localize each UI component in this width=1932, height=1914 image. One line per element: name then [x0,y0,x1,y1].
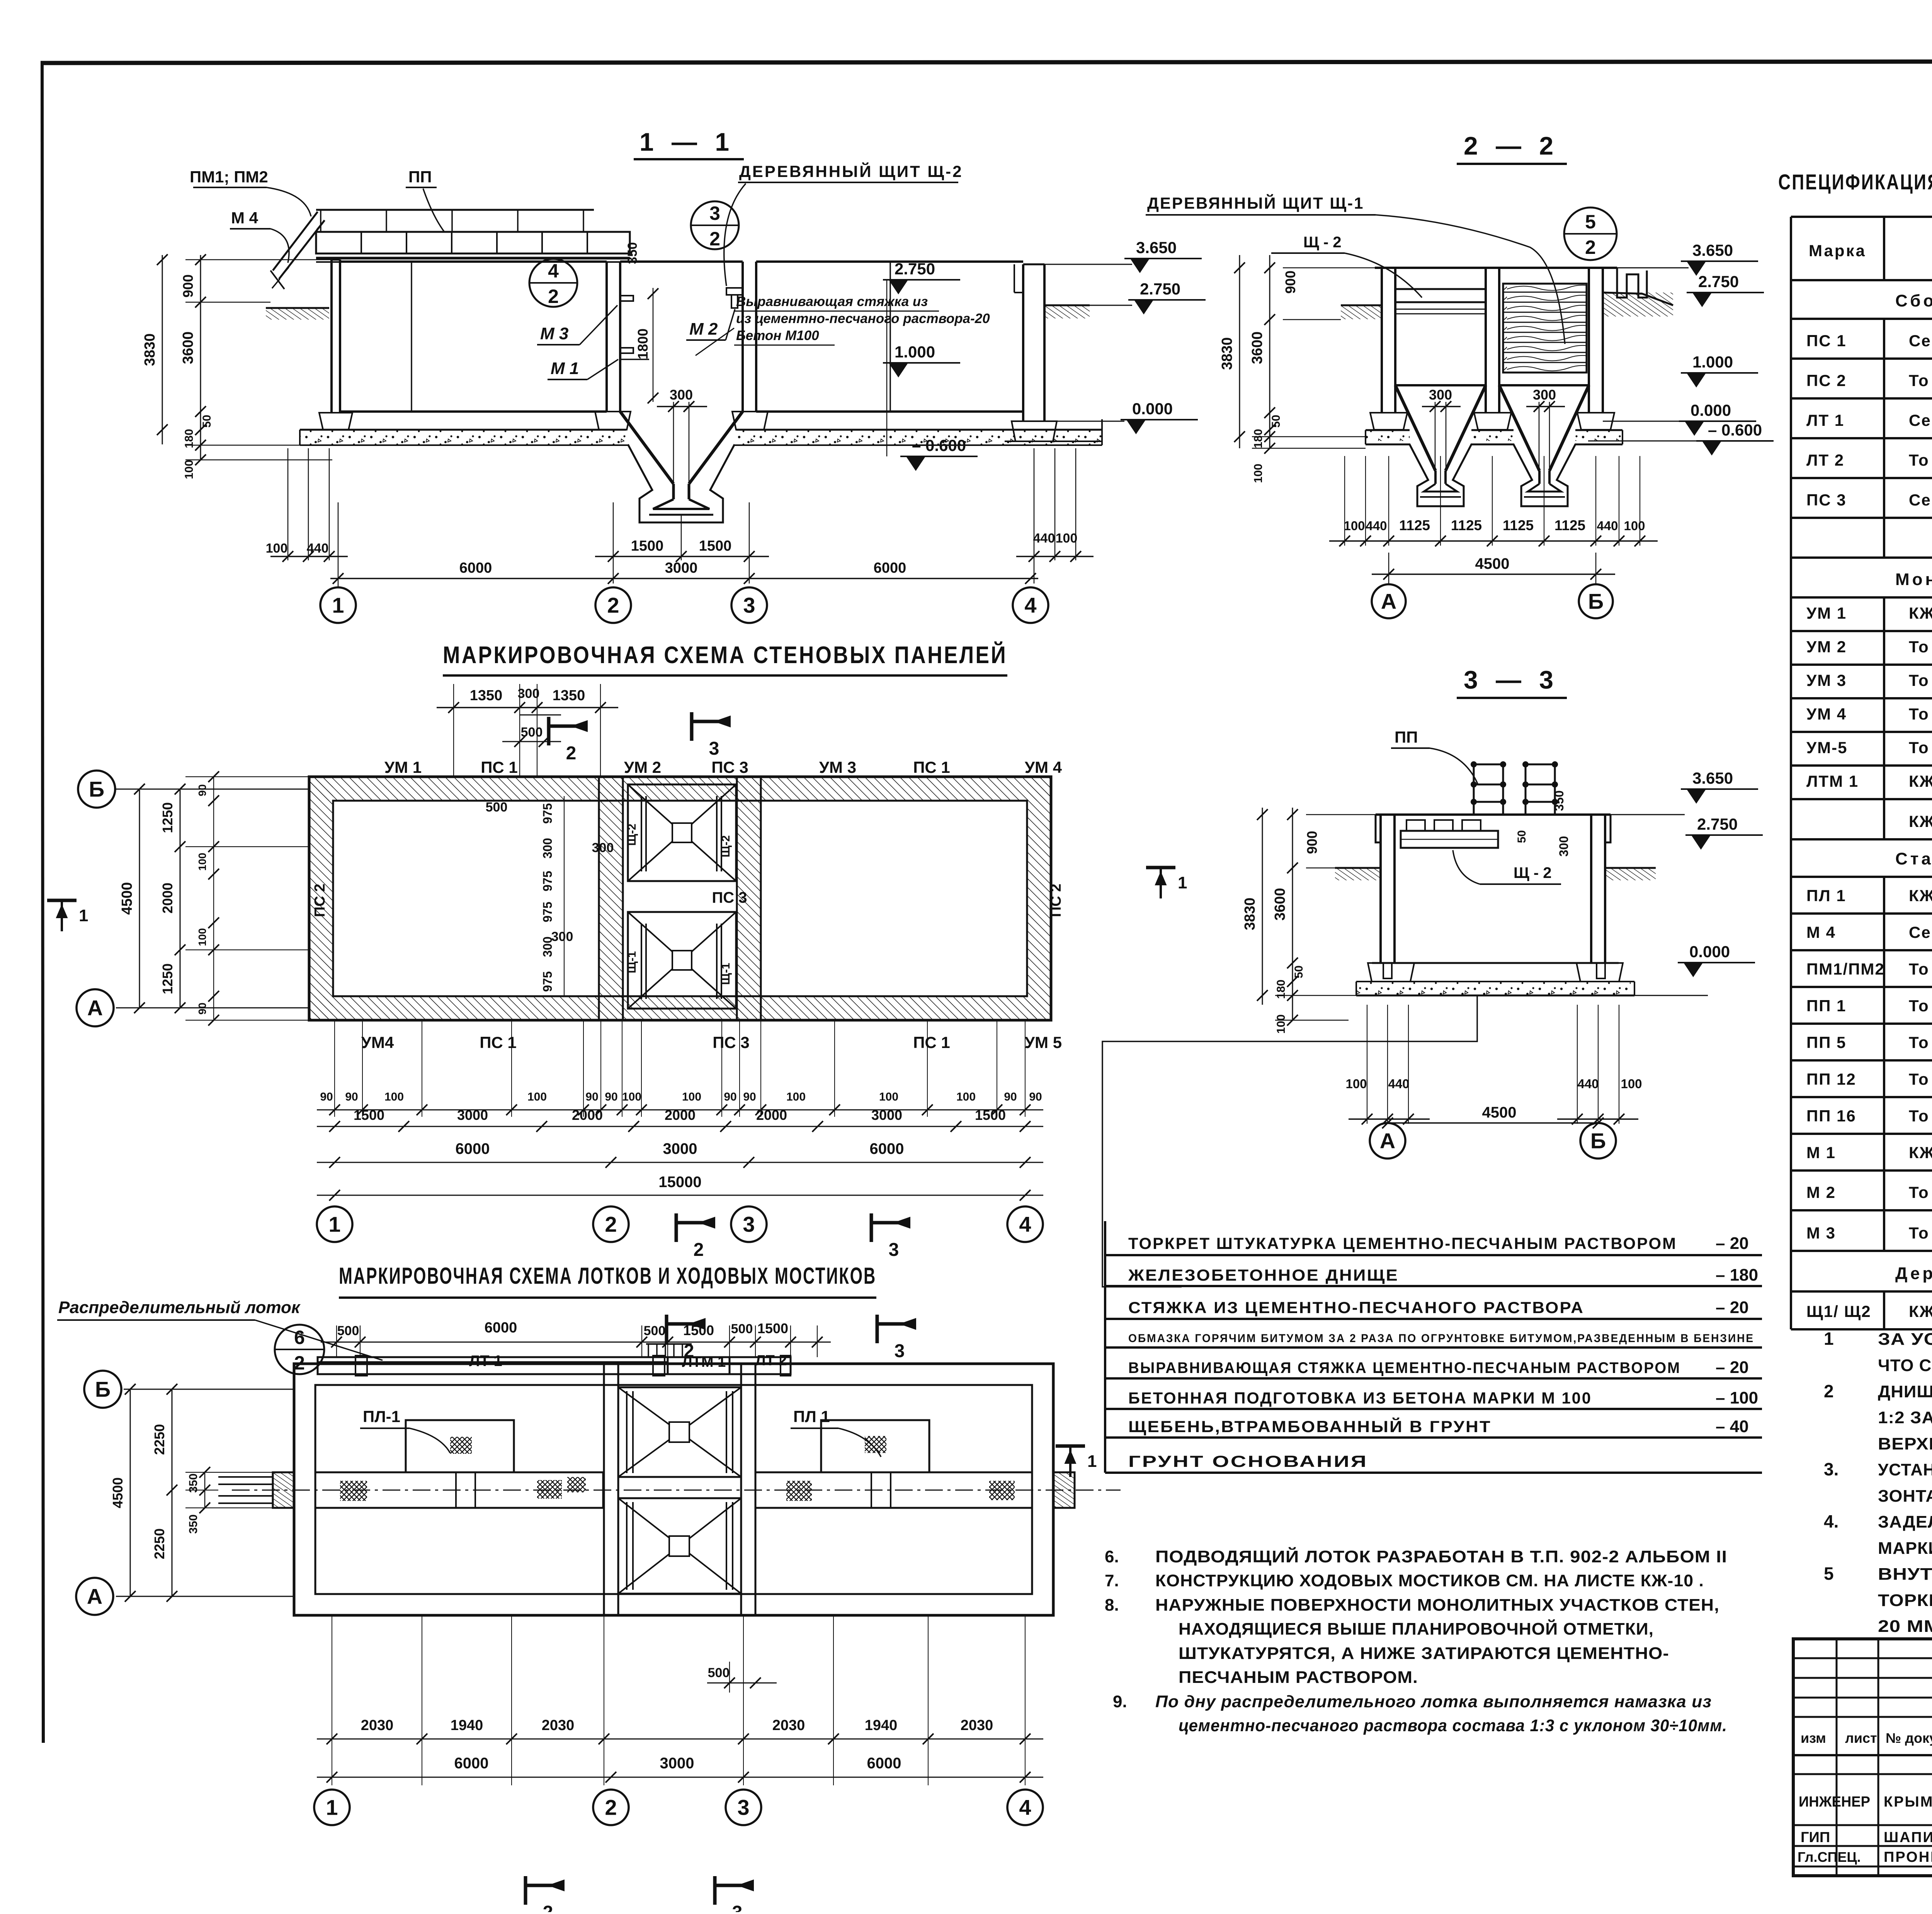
svg-text:5: 5 [1585,211,1596,233]
svg-text:2: 2 [1585,236,1596,258]
walkway hatch patches left [340,1481,367,1501]
svg-text:20 ММ. С ПОСЛЕДУЮЩЕЙ ЗАТИРК: 20 ММ. С ПОСЛЕДУЮЩЕЙ ЗАТИРКОЙ . [1878,1616,1932,1636]
svg-text:То же: То же [1909,638,1932,656]
spec row ЛТ 2 [1790,438,1792,478]
svg-text:– 20: – 20 [1716,1298,1749,1317]
spec row М 2 [1790,1171,1792,1210]
svg-text:ПМ1; ПМ2: ПМ1; ПМ2 [190,168,268,186]
spec row empty [1790,799,1792,839]
svg-text:Деревянные изделия: Деревянные изделия [1895,1264,1932,1283]
spec row УМ-5 [1790,732,1792,766]
section mark 3 below upper plan [870,1213,873,1242]
svg-text:3: 3 [889,1240,899,1260]
svg-text:М 2: М 2 [1806,1183,1836,1201]
svg-text:1: 1 [328,1212,340,1237]
svg-text:100: 100 [266,541,288,556]
svg-text:ПП 1: ПП 1 [1806,997,1846,1015]
svg-text:4500: 4500 [110,1477,126,1508]
svg-text:1500: 1500 [757,1320,788,1336]
svg-text:ЛТМ 1: ЛТМ 1 [1806,772,1859,790]
axis circle 3 [731,587,767,623]
svg-text:СПЕЦИФИКАЦИЯ ЭЛЕМЕНТОВ К МАРКИ: СПЕЦИФИКАЦИЯ ЭЛЕМЕНТОВ К МАРКИРОВОЧНОЙ С… [1778,170,1932,194]
svg-text:Серия 3.900-2 вып. 6 ; КЖ-: Серия 3.900-2 вып. 6 ; КЖ- 9 [1909,411,1932,429]
spec row ПС 2 [1790,359,1792,398]
svg-text:ПС 2: ПС 2 [1048,884,1064,917]
left inlet protrusion [273,1472,294,1508]
svg-text:900: 900 [1304,831,1320,854]
svg-text:УМ-5: УМ-5 [1806,738,1847,757]
svg-text:2: 2 [605,1212,617,1237]
axis circle B 2-2 [1579,584,1613,618]
floor layers list [1104,1221,1106,1473]
svg-text:100: 100 [1252,464,1265,483]
svg-text:50: 50 [1515,830,1528,843]
middle wall 2-2 [1485,268,1487,413]
bracket M2 on wall axis 3 [726,288,743,295]
svg-text:2000: 2000 [756,1107,787,1123]
svg-text:2: 2 [548,286,559,307]
dim 4500 2-2 [1388,553,1389,584]
svg-text:ЛТ 2: ЛТ 2 [1806,451,1844,469]
svg-text:3: 3 [743,593,755,618]
spec row Щ1/ Щ2 [1790,1291,1792,1329]
right wall axis 4 with top notch [1022,264,1024,421]
svg-text:Марка: Марка [1809,242,1866,260]
svg-text:УМ 5: УМ 5 [1025,1033,1062,1051]
detail circle 6/2 lotki [275,1325,324,1374]
svg-text:6000: 6000 [459,560,492,576]
bottom dims 1500 1500 [613,502,614,584]
wall feet on slab [595,412,631,430]
svg-text:Стальные изделия: Стальные изделия [1895,849,1932,868]
plates M3 M1 on wall axis 2 [620,296,633,301]
spec subheader row [1790,839,1792,877]
tank 3-3 outline [1376,813,1611,816]
left dim chain 2-2 [1239,255,1240,448]
svg-text:100: 100 [1056,531,1078,546]
border frame left line [42,61,43,1743]
svg-text:1.000: 1.000 [1692,353,1733,371]
svg-text:2030: 2030 [961,1717,993,1734]
svg-text:ЗАДЕЛКА СТЕНОВЫХ ПАНЕЛЕЙ В: ЗАДЕЛКА СТЕНОВЫХ ПАНЕЛЕЙ В ПАЗ ДНИЩА ПРО… [1878,1512,1932,1531]
svg-text:ВЕРХНЕГО СЛОЯ: ВЕРХНЕГО СЛОЯ [1878,1434,1932,1453]
svg-text:ШТУКАТУРЯТСЯ, А НИЖЕ ЗАТИРА: ШТУКАТУРЯТСЯ, А НИЖЕ ЗАТИРАЮТСЯ ЦЕМЕНТНО… [1179,1644,1669,1663]
svg-text:КОНСТРУКЦИЮ ХОДОВЫХ МОСТИКОВ: КОНСТРУКЦИЮ ХОДОВЫХ МОСТИКОВ СМ. НА ЛИСТ… [1155,1571,1704,1590]
svg-text:– 100: – 100 [1716,1388,1758,1407]
svg-text:М 3: М 3 [1806,1224,1836,1242]
svg-text:4: 4 [548,260,559,282]
left dim chain 3-3 [1262,808,1263,1005]
svg-text:100: 100 [1344,519,1365,533]
svg-text:СТЯЖКА ИЗ ЦЕМЕНТНО-ПЕСЧАНОГО Р: СТЯЖКА ИЗ ЦЕМЕНТНО-ПЕСЧАНОГО РАСТВОРА [1128,1298,1584,1317]
svg-text:Щ - 2: Щ - 2 [1514,864,1552,881]
compartment floor lines 2-2 [1395,384,1486,386]
wall axis 3 [742,262,744,412]
spec row УМ 3 [1790,665,1792,698]
funnel right 2-2 [1499,385,1539,471]
svg-text:То же: То же [1909,1070,1932,1088]
svg-text:2: 2 [684,1341,694,1361]
svg-text:1250: 1250 [160,802,175,833]
svg-text:Гл.СПЕЦ.: Гл.СПЕЦ. [1798,1849,1861,1865]
svg-text:М 1: М 1 [1806,1143,1836,1162]
section mark 3 above lotki [876,1315,879,1343]
svg-text:1: 1 [79,906,88,925]
spec row ПМ1/ПМ2 [1790,950,1792,987]
wall foot axis 1 [319,413,352,430]
svg-text:100: 100 [183,460,196,479]
section mark 2 above lotki [665,1315,668,1343]
svg-text:300: 300 [518,686,540,701]
ladder M4 [273,212,318,271]
svg-text:2250: 2250 [151,1528,167,1559]
title block outer frame [1793,1639,1932,1876]
walkway band right tank [755,1472,1032,1508]
svg-text:2030: 2030 [772,1717,805,1734]
svg-text:100: 100 [1345,1077,1367,1091]
svg-text:1500: 1500 [975,1107,1006,1123]
svg-text:Щ-2: Щ-2 [626,823,638,846]
svg-text:1125: 1125 [1554,517,1585,533]
svg-text:100: 100 [1621,1077,1642,1091]
svg-text:3: 3 [709,202,720,224]
svg-text:6000: 6000 [867,1755,901,1772]
svg-text:3000: 3000 [663,1140,697,1157]
top dims lotki 500 6000 500 1500 500 1500 [336,1325,337,1357]
main dim line 6000 3000 6000 section 1-1 [338,502,339,587]
svg-text:1: 1 [1087,1452,1097,1471]
svg-text:Серия 3.900-2 вып 7: Серия 3.900-2 вып 7 [1909,332,1932,350]
svg-text:0.000: 0.000 [1132,400,1173,418]
vertical ext lines below upper plan [334,1020,335,1117]
svg-text:1: 1 [332,593,344,618]
svg-text:500: 500 [644,1324,666,1338]
axis circle 4 [1013,587,1048,623]
svg-text:1: 1 [1824,1329,1834,1349]
spec subheader row [1790,558,1792,597]
svg-text:М 4: М 4 [1806,923,1836,941]
svg-text:ПС 3: ПС 3 [711,758,748,776]
svg-text:КЖ- 10: КЖ- 10 [1909,886,1932,905]
svg-text:ПП: ПП [408,168,432,186]
svg-text:4500: 4500 [1482,1104,1517,1121]
svg-text:3.: 3. [1824,1459,1838,1479]
svg-text:2030: 2030 [361,1717,394,1734]
spec row ПП 1 [1790,987,1792,1024]
svg-text:1500: 1500 [354,1107,384,1123]
floor lines [340,410,607,413]
svg-text:Б: Б [95,1377,111,1402]
svg-text:ПС 3: ПС 3 [1806,491,1847,509]
svg-text:2030: 2030 [542,1717,575,1734]
spec row ПП 12 [1790,1060,1792,1097]
dim 500 top [520,715,561,716]
svg-text:КЖ- 6: КЖ- 6 [1909,772,1932,790]
upper plan X-brace box top [628,784,736,881]
svg-text:5: 5 [1824,1564,1834,1584]
section mark 2 below upper plan [675,1213,678,1242]
svg-text:Б: Б [1590,1129,1606,1153]
svg-text:4500: 4500 [119,882,135,915]
svg-text:ЖЕЛЕЗОБЕТОННОЕ ДНИЩЕ: ЖЕЛЕЗОБЕТОННОЕ ДНИЩЕ [1128,1266,1399,1284]
wooden shield Sch-1 plank [1395,289,1486,302]
axis circle A 2-2 [1372,584,1406,618]
svg-text:6000: 6000 [456,1140,490,1157]
svg-text:То же: То же [1909,671,1932,689]
svg-text:975: 975 [541,971,554,992]
svg-text:4: 4 [1024,593,1036,618]
svg-text:3.650: 3.650 [1692,241,1733,259]
dim 300 left funnel [1435,402,1436,479]
svg-text:1800: 1800 [635,328,651,359]
svg-text:90: 90 [345,1091,358,1103]
svg-text:6000: 6000 [454,1755,489,1772]
svg-text:ВНУТРЕННЯЯ ( К ВОДЕ ) ПОВЕРХ: ВНУТРЕННЯЯ ( К ВОДЕ ) ПОВЕРХНОСТЬ МОНОЛИ… [1878,1565,1932,1584]
svg-text:350: 350 [625,242,640,264]
lower dims row small 90 100 [317,1109,1043,1111]
spec row ПП 5 [1790,1024,1792,1060]
svg-text:975: 975 [541,803,554,823]
wood shield bar 3-3 [1401,831,1498,848]
svg-text:Б: Б [1588,589,1604,614]
svg-text:300: 300 [670,387,693,403]
svg-text:ОБМАЗКА ГОРЯЧИМ БИТУМОМ ЗА 2 Р: ОБМАЗКА ГОРЯЧИМ БИТУМОМ ЗА 2 РАЗА ПО ОГР… [1128,1332,1754,1345]
svg-text:180: 180 [1252,429,1265,448]
spec row ПЛ 1 [1790,877,1792,914]
axis circle B 3-3 [1580,1123,1616,1159]
left wall 3-3 [1379,815,1382,963]
section mark T1 left of upper plan [47,899,77,902]
spec table grid [1791,216,1932,218]
svg-text:По дну распределительного лот: По дну распределительного лотка выполняе… [1155,1692,1712,1711]
svg-text:– 20: – 20 [1716,1234,1749,1253]
svg-text:1350: 1350 [470,687,503,704]
svg-text:180: 180 [1275,980,1287,999]
border frame top line [41,61,1932,63]
svg-text:3830: 3830 [142,333,158,366]
svg-text:Щ-1: Щ-1 [626,951,638,973]
svg-text:То же: То же [1909,371,1932,390]
lotki middle wall right [741,1364,755,1615]
svg-text:100: 100 [1275,1014,1287,1034]
svg-text:ПС 1: ПС 1 [913,1033,950,1051]
svg-text:ПС 1: ПС 1 [480,1033,517,1051]
svg-text:БЕТОННАЯ ПОДГОТОВКА ИЗ БЕТОНА: БЕТОННАЯ ПОДГОТОВКА ИЗ БЕТОНА МАРКИ М 10… [1128,1389,1592,1407]
svg-text:УМ 3: УМ 3 [819,758,856,776]
svg-text:90: 90 [196,784,208,796]
upper plan middle wall axis 2 [599,777,623,1020]
svg-text:50: 50 [201,415,213,427]
svg-text:0.000: 0.000 [1689,943,1730,961]
wall axis 2 [605,262,608,412]
tank section 1-1 outline [330,260,333,413]
svg-text:90: 90 [585,1091,598,1103]
svg-text:90: 90 [320,1091,333,1103]
svg-text:3830: 3830 [1242,898,1258,931]
svg-text:КЖ- 9: КЖ- 9 [1909,1143,1932,1162]
tank top edge [340,260,607,263]
elevation 1.000 2-2 [1681,372,1758,374]
svg-text:М 1: М 1 [551,359,579,378]
dim row 15000 [317,1195,1043,1196]
svg-text:100: 100 [956,1091,976,1103]
detail circle 4/2 [529,259,577,307]
svg-text:2.750: 2.750 [1698,272,1739,291]
dims row 6000 3000 6000 upper plan [317,1162,1043,1163]
left dim chains upper plan [139,789,140,1008]
svg-text:ПС 1: ПС 1 [913,758,950,776]
svg-text:90: 90 [196,1002,208,1014]
svg-text:ЛТ 1: ЛТ 1 [469,1353,502,1370]
slab 3-3 [1372,962,1619,964]
svg-text:300: 300 [1557,836,1571,856]
svg-text:ПЛ 1: ПЛ 1 [793,1407,830,1426]
funnel outer slab contour [628,444,735,522]
spec row ЛТМ 1 [1790,766,1792,799]
svg-text:4500: 4500 [1475,555,1510,572]
right protrusion [1053,1472,1075,1508]
bottom dims 2-2 row [1344,456,1345,546]
svg-text:Щ - 2: Щ - 2 [1303,234,1342,251]
svg-text:3: 3 [709,738,719,759]
spec row М 3 [1790,1210,1792,1251]
svg-text:КЖ- 3: КЖ- 3 [1909,812,1932,830]
svg-text:ПС 3: ПС 3 [712,889,747,906]
svg-text:То же: То же [1909,1033,1932,1051]
svg-text:Щ-2: Щ-2 [719,835,732,857]
svg-text:9.: 9. [1113,1692,1127,1711]
svg-text:2.750: 2.750 [1140,280,1180,298]
svg-text:ПМ1/ПМ2: ПМ1/ПМ2 [1806,960,1885,978]
lotki middle wall left [604,1364,618,1615]
svg-text:2 — 2: 2 — 2 [1464,131,1559,160]
svg-text:0.000: 0.000 [1690,401,1731,419]
svg-text:350: 350 [1552,790,1566,811]
left wall 2-2 [1381,268,1383,413]
small 90 100 dims left [213,777,214,1020]
svg-text:НАХОДЯЩИЕСЯ ВЫШЕ ПЛАНИРОВОЧН: НАХОДЯЩИЕСЯ ВЫШЕ ПЛАНИРОВОЧНОЙ ОТМЕТКИ, [1179,1619,1654,1638]
svg-text:1125: 1125 [1451,517,1482,533]
svg-text:То же: То же [1909,960,1932,978]
svg-text:3.650: 3.650 [1136,238,1177,257]
svg-text:ПС 2: ПС 2 [312,884,328,917]
svg-text:УМ 3: УМ 3 [1806,671,1847,689]
svg-text:100: 100 [622,1091,641,1103]
right end panel notch [1617,268,1647,298]
svg-text:ВЫРАВНИВАЮЩАЯ СТЯЖКА ЦЕМЕНТНО-: ВЫРАВНИВАЮЩАЯ СТЯЖКА ЦЕМЕНТНО-ПЕСЧАНЫМ Р… [1128,1359,1681,1376]
axis circle 2 [595,587,631,623]
svg-text:3: 3 [732,1902,743,1912]
svg-text:300: 300 [1429,387,1452,403]
svg-text:– 0.600: – 0.600 [1708,421,1762,439]
svg-text:Щ1/ Щ2: Щ1/ Щ2 [1806,1302,1871,1320]
dims 2030 1940 2030 row [317,1739,1043,1740]
spec row empty [1790,518,1792,558]
svg-text:440: 440 [307,541,329,556]
svg-text:ДНИЩЕ ЕМКОСТИ ТОРКРЕТИРУЕТСЯ: ДНИЩЕ ЕМКОСТИ ТОРКРЕТИРУЕТСЯ ЦЕМЕНТНО- П… [1878,1382,1932,1401]
svg-text:ПП 5: ПП 5 [1806,1033,1846,1051]
spec row М 4 [1790,914,1792,950]
svg-text:УМ 2: УМ 2 [1806,638,1847,656]
axis circle A upper plan [77,989,114,1026]
svg-text:ТОРКРЕТ ШТУКАТУРКА ЦЕМЕНТНО-ПЕ: ТОРКРЕТ ШТУКАТУРКА ЦЕМЕНТНО-ПЕСЧАНЫМ РАС… [1128,1234,1677,1252]
elevation 0.000 2-2 [1679,420,1756,422]
dim 500 below middle lotki [724,1678,735,1688]
svg-text:7.: 7. [1105,1571,1119,1590]
svg-text:100: 100 [196,928,208,946]
lotki X-box bottom [618,1498,741,1594]
svg-text:3000: 3000 [871,1107,902,1123]
svg-text:2000: 2000 [572,1107,603,1123]
right wall 3-3 [1590,815,1592,963]
svg-text:3000: 3000 [660,1755,694,1772]
svg-text:3600: 3600 [1249,332,1265,364]
svg-text:975: 975 [541,871,554,891]
ground lines 3-3 [1335,867,1381,869]
svg-text:440: 440 [1366,519,1387,533]
elevation marks middle [886,280,888,456]
svg-text:УМ4: УМ4 [361,1033,394,1051]
svg-text:1350: 1350 [553,687,585,704]
spec row М 1 [1790,1134,1792,1171]
svg-text:100: 100 [879,1091,898,1103]
elevation 3.650 2-2 [1681,260,1758,262]
svg-text:ДЕРЕВЯННЫЙ ЩИТ Щ-1: ДЕРЕВЯННЫЙ ЩИТ Щ-1 [1147,194,1364,212]
svg-text:ЩЕБЕНЬ,ВТРАМБОВАННЫЙ В ГРУНТ: ЩЕБЕНЬ,ВТРАМБОВАННЫЙ В ГРУНТ [1128,1417,1492,1436]
svg-text:100: 100 [786,1091,806,1103]
section mark 3 top [690,712,694,741]
svg-text:ДЕРЕВЯННЫЙ ЩИТ Щ-2: ДЕРЕВЯННЫЙ ЩИТ Щ-2 [739,162,963,180]
svg-text:ПРОНИН: ПРОНИН [1884,1849,1932,1865]
svg-text:2: 2 [566,743,577,764]
svg-text:УМ 4: УМ 4 [1806,705,1847,723]
svg-text:НАРУЖНЫЕ ПОВЕРХНОСТИ МОНОЛИТ: НАРУЖНЫЕ ПОВЕРХНОСТИ МОНОЛИТНЫХ УЧАСТКОВ… [1155,1596,1719,1615]
svg-text:А: А [1381,589,1396,614]
svg-text:1.000: 1.000 [895,343,935,361]
sludge funnel [620,412,673,484]
railing panels on top 3-3 [1473,763,1475,815]
lotki X-box top [618,1387,741,1477]
svg-text:КЖ - 9: КЖ - 9 [1909,1302,1932,1320]
axis circle B lotki [84,1371,121,1408]
svg-text:ПОДВОДЯЩИЙ ЛОТОК РАЗРАБОТАН: ПОДВОДЯЩИЙ ЛОТОК РАЗРАБОТАН В Т.П. 902-2… [1155,1547,1727,1566]
svg-text:КРЫМСКИЙ: КРЫМСКИЙ [1884,1793,1932,1810]
svg-text:То же: То же [1909,451,1932,469]
svg-text:2: 2 [607,593,619,618]
svg-text:6: 6 [294,1327,305,1348]
svg-text:3: 3 [743,1212,755,1237]
section mark T1 right of lotki plan [1056,1444,1085,1448]
svg-text:А: А [1380,1129,1395,1153]
channel LT1 strip [318,1357,668,1374]
section mark 2 bottom [524,1876,527,1905]
svg-text:2: 2 [605,1795,617,1820]
svg-text:3: 3 [737,1795,749,1820]
svg-text:ПЛ 1: ПЛ 1 [1806,886,1846,905]
svg-text:6000: 6000 [874,560,906,576]
svg-text:Серия 3.900-2 вып. 7: Серия 3.900-2 вып. 7 [1909,491,1932,509]
svg-text:Распределительный лоток: Распределительный лоток [58,1298,301,1317]
svg-text:2000: 2000 [665,1107,696,1123]
walkway centerline dash-dot [232,1490,1121,1491]
svg-text:90: 90 [743,1091,756,1103]
bottom dims 3-3 [1367,1005,1367,1124]
svg-text:300: 300 [551,929,573,944]
svg-text:1125: 1125 [1503,517,1534,533]
svg-text:975: 975 [541,902,554,922]
svg-text:300: 300 [541,838,554,858]
dim 4500 3-3 [1388,1122,1598,1124]
